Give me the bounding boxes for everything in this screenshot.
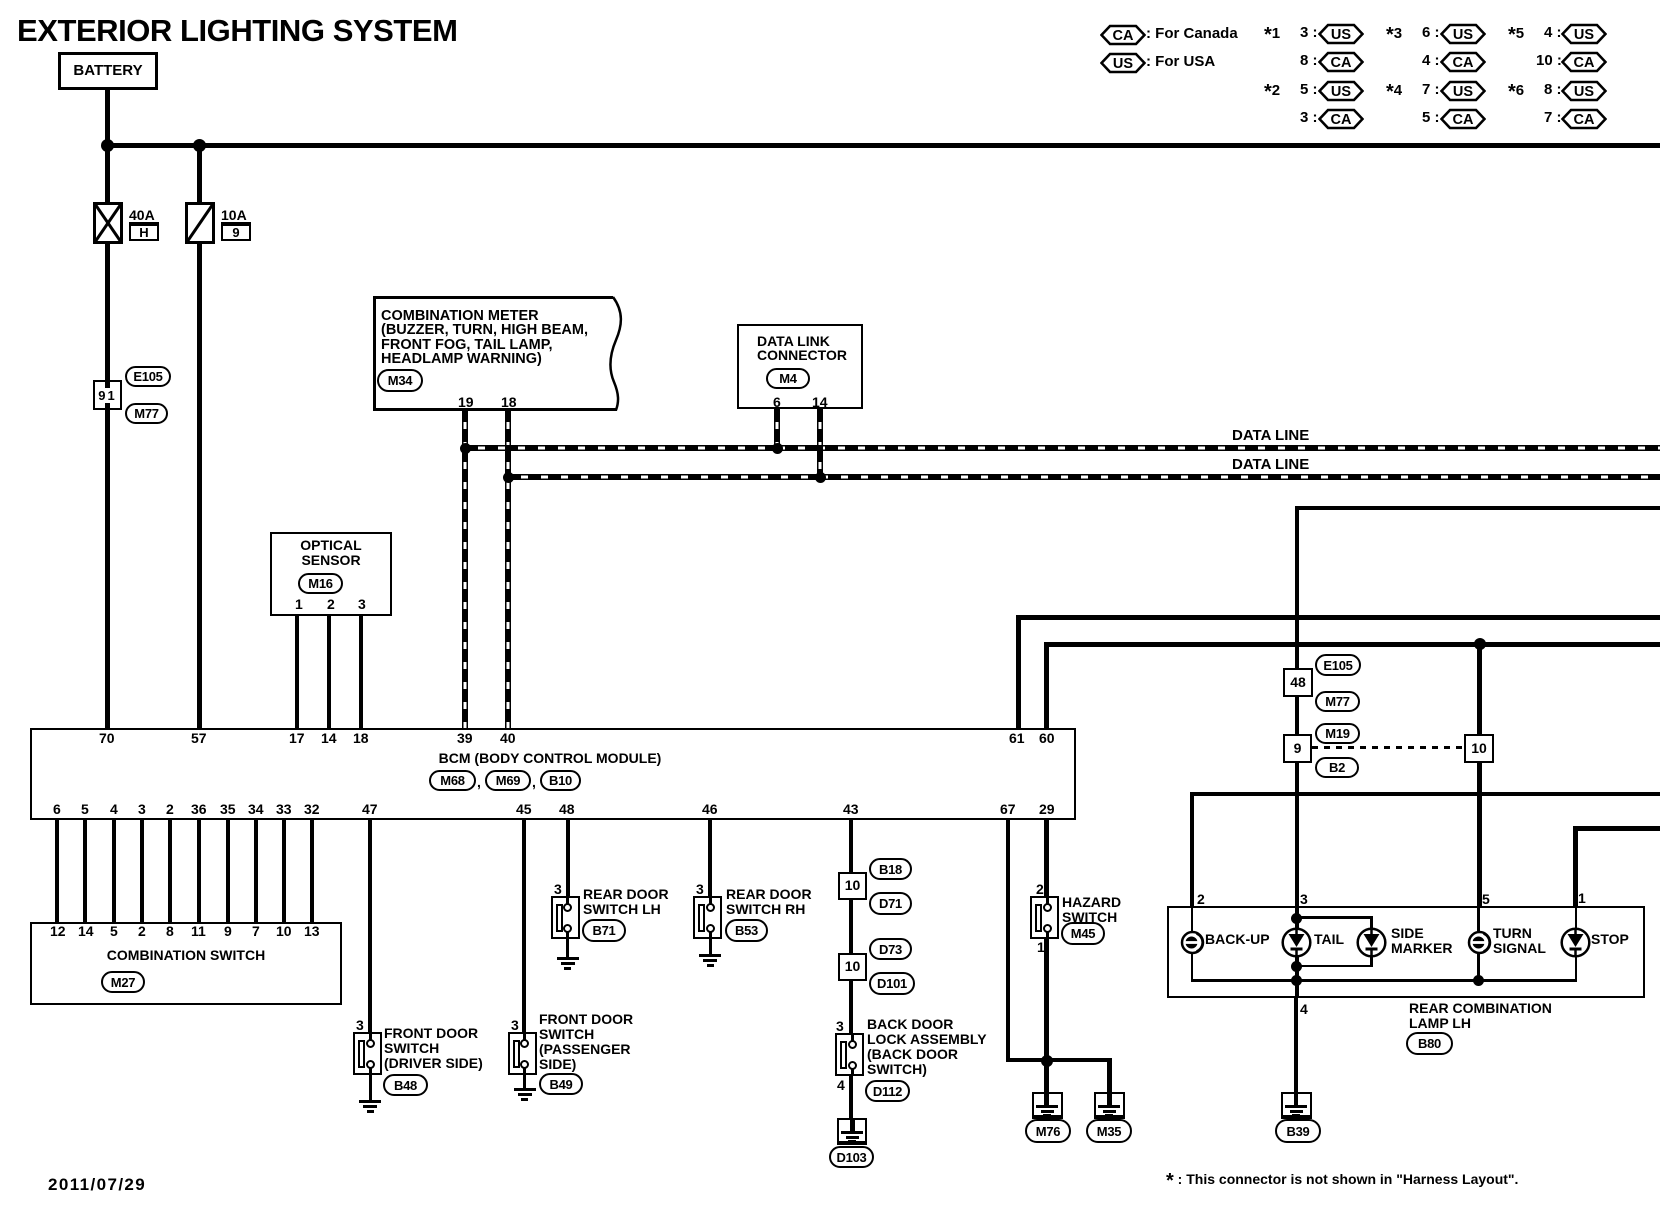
svg-text:US: US: [1331, 27, 1351, 43]
svg-text:US: US: [1331, 84, 1351, 100]
svg-text:US: US: [1453, 84, 1473, 100]
svg-text:US: US: [1453, 27, 1473, 43]
svg-text:CA: CA: [1453, 55, 1474, 71]
svg-text:CA: CA: [1453, 112, 1474, 128]
svg-text:US: US: [1574, 84, 1594, 100]
svg-text:CA: CA: [1574, 55, 1595, 71]
svg-text:CA: CA: [1331, 112, 1352, 128]
svg-text:CA: CA: [1574, 112, 1595, 128]
svg-text:CA: CA: [1331, 55, 1352, 71]
svg-text:US: US: [1113, 56, 1133, 72]
svg-text:CA: CA: [1113, 28, 1134, 44]
svg-text:US: US: [1574, 27, 1594, 43]
